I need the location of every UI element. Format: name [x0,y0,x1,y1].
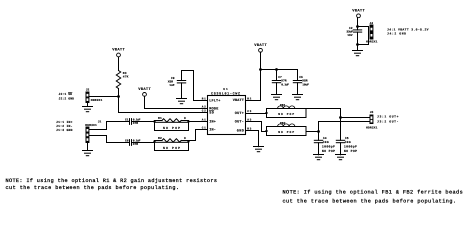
svg-text:U1: U1 [223,88,228,91]
U1 right pin numbers [247,97,251,130]
node J2/R3/SD junction [117,95,120,98]
ground (J1) [83,151,93,156]
capacitor C9 1uF X5R [168,77,186,98]
svg-text:J4:2 GND: J4:2 GND [387,32,406,36]
capacitor C7 0.1uF X7R [272,70,289,95]
svg-text:OUT+: OUT+ [235,111,244,116]
svg-text:VBATT: VBATT [233,98,244,103]
svg-text:B1: B1 [202,97,206,100]
svg-text:C1: C1 [125,119,129,122]
wire FB2 to J3 pin2 [306,122,370,132]
svg-text:X7R: X7R [133,143,138,146]
svg-text:VBATT: VBATT [254,43,267,48]
svg-text:NO POP: NO POP [163,146,180,150]
node C7 tap [275,68,278,71]
svg-text:VBATT: VBATT [112,48,125,53]
svg-text:J3:2 OUT-: J3:2 OUT- [377,119,399,123]
connector J3 HDR2X1 [366,111,378,129]
svg-text:33uF: 33uF [346,31,353,34]
capacitor C1 0.1uF X7R [125,119,141,126]
ground (U1 GND) [254,147,264,152]
svg-text:FB2: FB2 [280,122,286,125]
svg-text:IN+: IN+ [209,120,216,125]
svg-text:VBATT: VBATT [138,87,151,92]
svg-text:A2: A2 [202,106,206,109]
svg-text:IN-: IN- [209,128,216,133]
svg-text:C6: C6 [299,76,303,79]
node FB2/J3/C4 [317,130,320,133]
svg-text:C8: C8 [125,140,129,143]
svg-text:cut the trace between the pads: cut the trace between the pads before po… [6,185,180,191]
svg-text:10uF: 10uF [302,83,309,86]
svg-text:C2: C2 [349,27,353,30]
svg-text:X7R: X7R [281,80,286,83]
ground (J4/C2) [353,51,363,56]
wire VBATT to U1 MODE pin [145,96,208,108]
ferrite bead FB1 NO POP [265,104,306,117]
svg-text:C5: C5 [345,137,349,140]
ground (C7) [272,95,282,100]
wire R2 to U1 IN- [189,130,208,141]
svg-text:GND: GND [237,129,244,134]
svg-text:NO POP: NO POP [278,113,294,116]
wire VBATT to R3 [118,57,120,71]
svg-text:HDR2X1: HDR2X1 [91,99,103,102]
svg-text:HDR2X1: HDR2X1 [366,126,378,129]
ground (C9) [177,99,187,104]
wire VBATT to U1 pin B2 [246,52,261,100]
svg-text:FB1: FB1 [280,104,286,107]
svg-text:J3:1 OUT+: J3:1 OUT+ [377,115,399,119]
wire J1 pin2 to C8 row [90,136,129,143]
wire C1 to R1 [132,121,155,123]
capacitor C5 1000pF C0G NO POP [336,137,357,155]
power VBATT (R3 pull-up) [112,48,125,57]
note R1/R2 gain adjustment [6,178,218,191]
ground (C4) [314,155,324,160]
capacitor C2 33uF 16V [346,27,361,37]
wire R1 to U1 IN+ [189,121,208,123]
wire FB2 node down to C4 [318,132,320,141]
svg-text:16V: 16V [347,34,352,37]
power VBATT (MODE) [138,87,151,96]
svg-text:J2: J2 [86,88,90,91]
resistor R3 47K [116,71,128,89]
svg-text:R3: R3 [123,72,127,75]
svg-text:1000pF: 1000pF [344,145,357,149]
svg-text:0: 0 [184,137,186,140]
svg-text:J3: J3 [370,111,374,114]
op-amp U1 CS35L01-CWZ [208,88,246,134]
svg-text:NO POP: NO POP [322,149,335,153]
svg-text:NOTE: If using the optional R1: NOTE: If using the optional R1 & R2 gain… [6,178,218,184]
svg-text:1000pF: 1000pF [322,145,335,149]
wire junction to U1 SD pin [119,97,208,113]
svg-text:R1: R1 [158,117,162,120]
svg-text:HDR2X1: HDR2X1 [366,40,378,43]
wire C2 to ground [357,32,359,50]
svg-text:J1: J1 [98,120,102,123]
svg-text:J4: J4 [369,22,373,25]
svg-text:NO POP: NO POP [163,126,180,130]
svg-text:cut the trace between the pads: cut the trace between the pads before po… [283,199,457,205]
power VBATT (J4 input) [352,8,365,17]
svg-text:VBATT: VBATT [352,8,365,13]
node FB1/J3/C5 [339,116,342,119]
capacitor C4 1000pF C0G NO POP [314,137,335,155]
svg-text:0.1uF: 0.1uF [281,83,289,86]
svg-text:C2: C2 [202,110,206,113]
svg-text:X5R: X5R [302,80,307,83]
label J2 pin functions [59,92,75,100]
svg-text:1uF: 1uF [169,84,174,87]
svg-text:LFLT+: LFLT+ [209,99,220,104]
svg-text:C3: C3 [247,110,251,113]
wire J2 pin2 to ground [87,103,89,107]
capacitor C8 0.1uF X7R [125,140,141,147]
node VBATT decoupling branch [259,68,262,71]
resistor R2 0 ohm with NO POP pad box [153,137,189,151]
svg-text:C7: C7 [278,76,282,79]
ground (J2) [83,107,93,112]
label J1 pin functions [56,120,73,132]
resistor R1 0 ohm with NO POP pad box [153,117,189,131]
svg-text:C4: C4 [323,137,327,140]
wire FB1 to J3 pin1 [306,109,370,118]
connector J4 HDR2X1 [366,22,378,44]
svg-text:R2: R2 [158,137,162,140]
ground (C5) [336,155,346,160]
svg-text:A1: A1 [202,119,206,122]
wire U1 OUT+ to FB1 [246,113,267,115]
wire junction to J2 pin1 [90,96,119,98]
connector J1 HDR3X1 [86,120,102,143]
wire J1 pin1 to C1 row [90,122,129,130]
wire U1 OUT- to FB2 [246,122,267,132]
wire VBATT down to C2 [357,18,359,30]
wire C8 to R2 [132,142,155,144]
svg-text:NOTE: If using the optional FB: NOTE: If using the optional FB1 & FB2 fe… [283,189,463,195]
U1 left pin numbers [202,97,206,129]
svg-text:X7R: X7R [133,122,138,125]
wire VBATT branch to C7/C6 [261,69,298,71]
wire J1 pin3 to ground [87,143,89,150]
note FB1/FB2 ferrite beads [283,189,463,204]
svg-text:B2: B2 [247,97,251,100]
wire R3 to junction [118,89,120,97]
svg-text:SD: SD [209,111,214,116]
svg-text:J1:3 GND: J1:3 GND [56,128,73,132]
node J4 bottom tap [356,43,359,46]
svg-text:0: 0 [184,117,186,120]
node J4 top tap [356,25,359,28]
wire FB1 node down to C5 [340,118,342,141]
svg-text:NO POP: NO POP [344,149,357,153]
wire U1 GND pin B3 to ground [246,131,259,147]
svg-text:J2:2 GND: J2:2 GND [59,96,75,100]
ferrite bead FB2 NO POP [265,122,306,135]
svg-text:NO POP: NO POP [278,131,294,134]
connector J2 HDR2X1 [86,88,103,103]
power VBATT (U1 supply) [254,43,267,52]
label J3 pin functions [377,115,399,124]
capacitor C6 10uF X5R [293,70,309,95]
wire U1 LFLT+ to C9 [182,71,208,101]
ground (C6) [293,95,303,100]
wire J4 parallel loop [358,27,369,45]
svg-text:OUT-: OUT- [235,120,244,125]
svg-text:HDR3X1: HDR3X1 [85,124,97,127]
svg-text:47K: 47K [123,76,129,79]
svg-text:C1: C1 [202,127,206,130]
label J4 pin functions [387,27,429,35]
